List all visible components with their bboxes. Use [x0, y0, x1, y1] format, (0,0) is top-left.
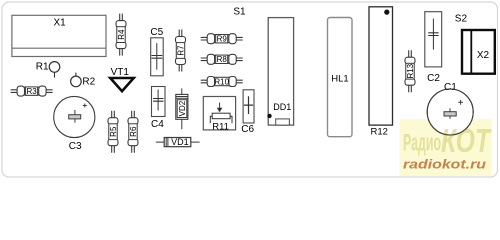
- svg-text:VD2: VD2: [178, 100, 187, 116]
- svg-text:R13: R13: [406, 63, 415, 78]
- resistor R2: [71, 73, 82, 87]
- LED/lamp HL1: [328, 18, 353, 137]
- capacitor C5: [151, 38, 164, 76]
- resistor R7: [176, 30, 186, 72]
- svg-text:C2: C2: [427, 73, 440, 84]
- svg-text:S1: S1: [233, 7, 246, 18]
- svg-text:HL1: HL1: [331, 73, 348, 84]
- svg-text:DD1: DD1: [273, 102, 291, 112]
- svg-text:R8: R8: [217, 55, 228, 64]
- svg-text:C6: C6: [241, 124, 254, 135]
- transistor VT1: [110, 78, 133, 91]
- diode VD2: [176, 88, 188, 129]
- resistor R12: [369, 7, 393, 125]
- resistor R10: [201, 77, 243, 87]
- svg-text:R2: R2: [82, 76, 95, 87]
- svg-text:C5: C5: [150, 27, 163, 38]
- svg-text:R7: R7: [176, 45, 185, 56]
- svg-text:R10: R10: [214, 77, 229, 86]
- connector X1: [12, 15, 106, 56]
- svg-text:X1: X1: [53, 18, 66, 29]
- svg-text:C1: C1: [444, 82, 457, 93]
- svg-text:R4: R4: [117, 29, 126, 40]
- watermark text RadioKOT: [403, 122, 492, 159]
- svg-text:R12: R12: [370, 126, 387, 137]
- svg-text:VT1: VT1: [111, 67, 130, 78]
- resistor R8: [201, 54, 243, 64]
- resistor R13: [405, 50, 415, 92]
- resistor R1: [49, 62, 60, 78]
- capacitor C6: [243, 90, 254, 123]
- svg-text:R1: R1: [36, 61, 49, 72]
- svg-text:S2: S2: [455, 14, 468, 25]
- IC DD1: [267, 18, 293, 126]
- svg-text:R11: R11: [212, 121, 229, 132]
- svg-text:R3: R3: [26, 87, 37, 96]
- resistor R6: [128, 111, 138, 153]
- svg-text:C4: C4: [151, 119, 164, 130]
- diode VD1: [156, 138, 200, 147]
- watermark radiokot.ru block: [400, 119, 492, 176]
- connector X2: [462, 30, 495, 74]
- capacitor C3: [54, 96, 95, 137]
- resistor R4: [116, 14, 126, 56]
- capacitor C1: [427, 89, 473, 135]
- trimmer R11: [203, 97, 235, 130]
- svg-text:Радио: Радио: [403, 130, 441, 157]
- resistor R5: [108, 111, 118, 153]
- resistor R3: [11, 86, 53, 96]
- svg-text:R6: R6: [129, 126, 138, 137]
- svg-text:R9: R9: [217, 35, 228, 44]
- capacitor C1 outline redraw: [427, 89, 473, 135]
- resistor R9: [201, 34, 243, 44]
- capacitor C2: [425, 12, 442, 67]
- svg-text:R5: R5: [109, 126, 118, 137]
- capacitor C4: [152, 87, 166, 117]
- svg-text:X2: X2: [477, 50, 490, 61]
- svg-text:C3: C3: [69, 141, 82, 152]
- svg-text:VD1: VD1: [171, 137, 189, 147]
